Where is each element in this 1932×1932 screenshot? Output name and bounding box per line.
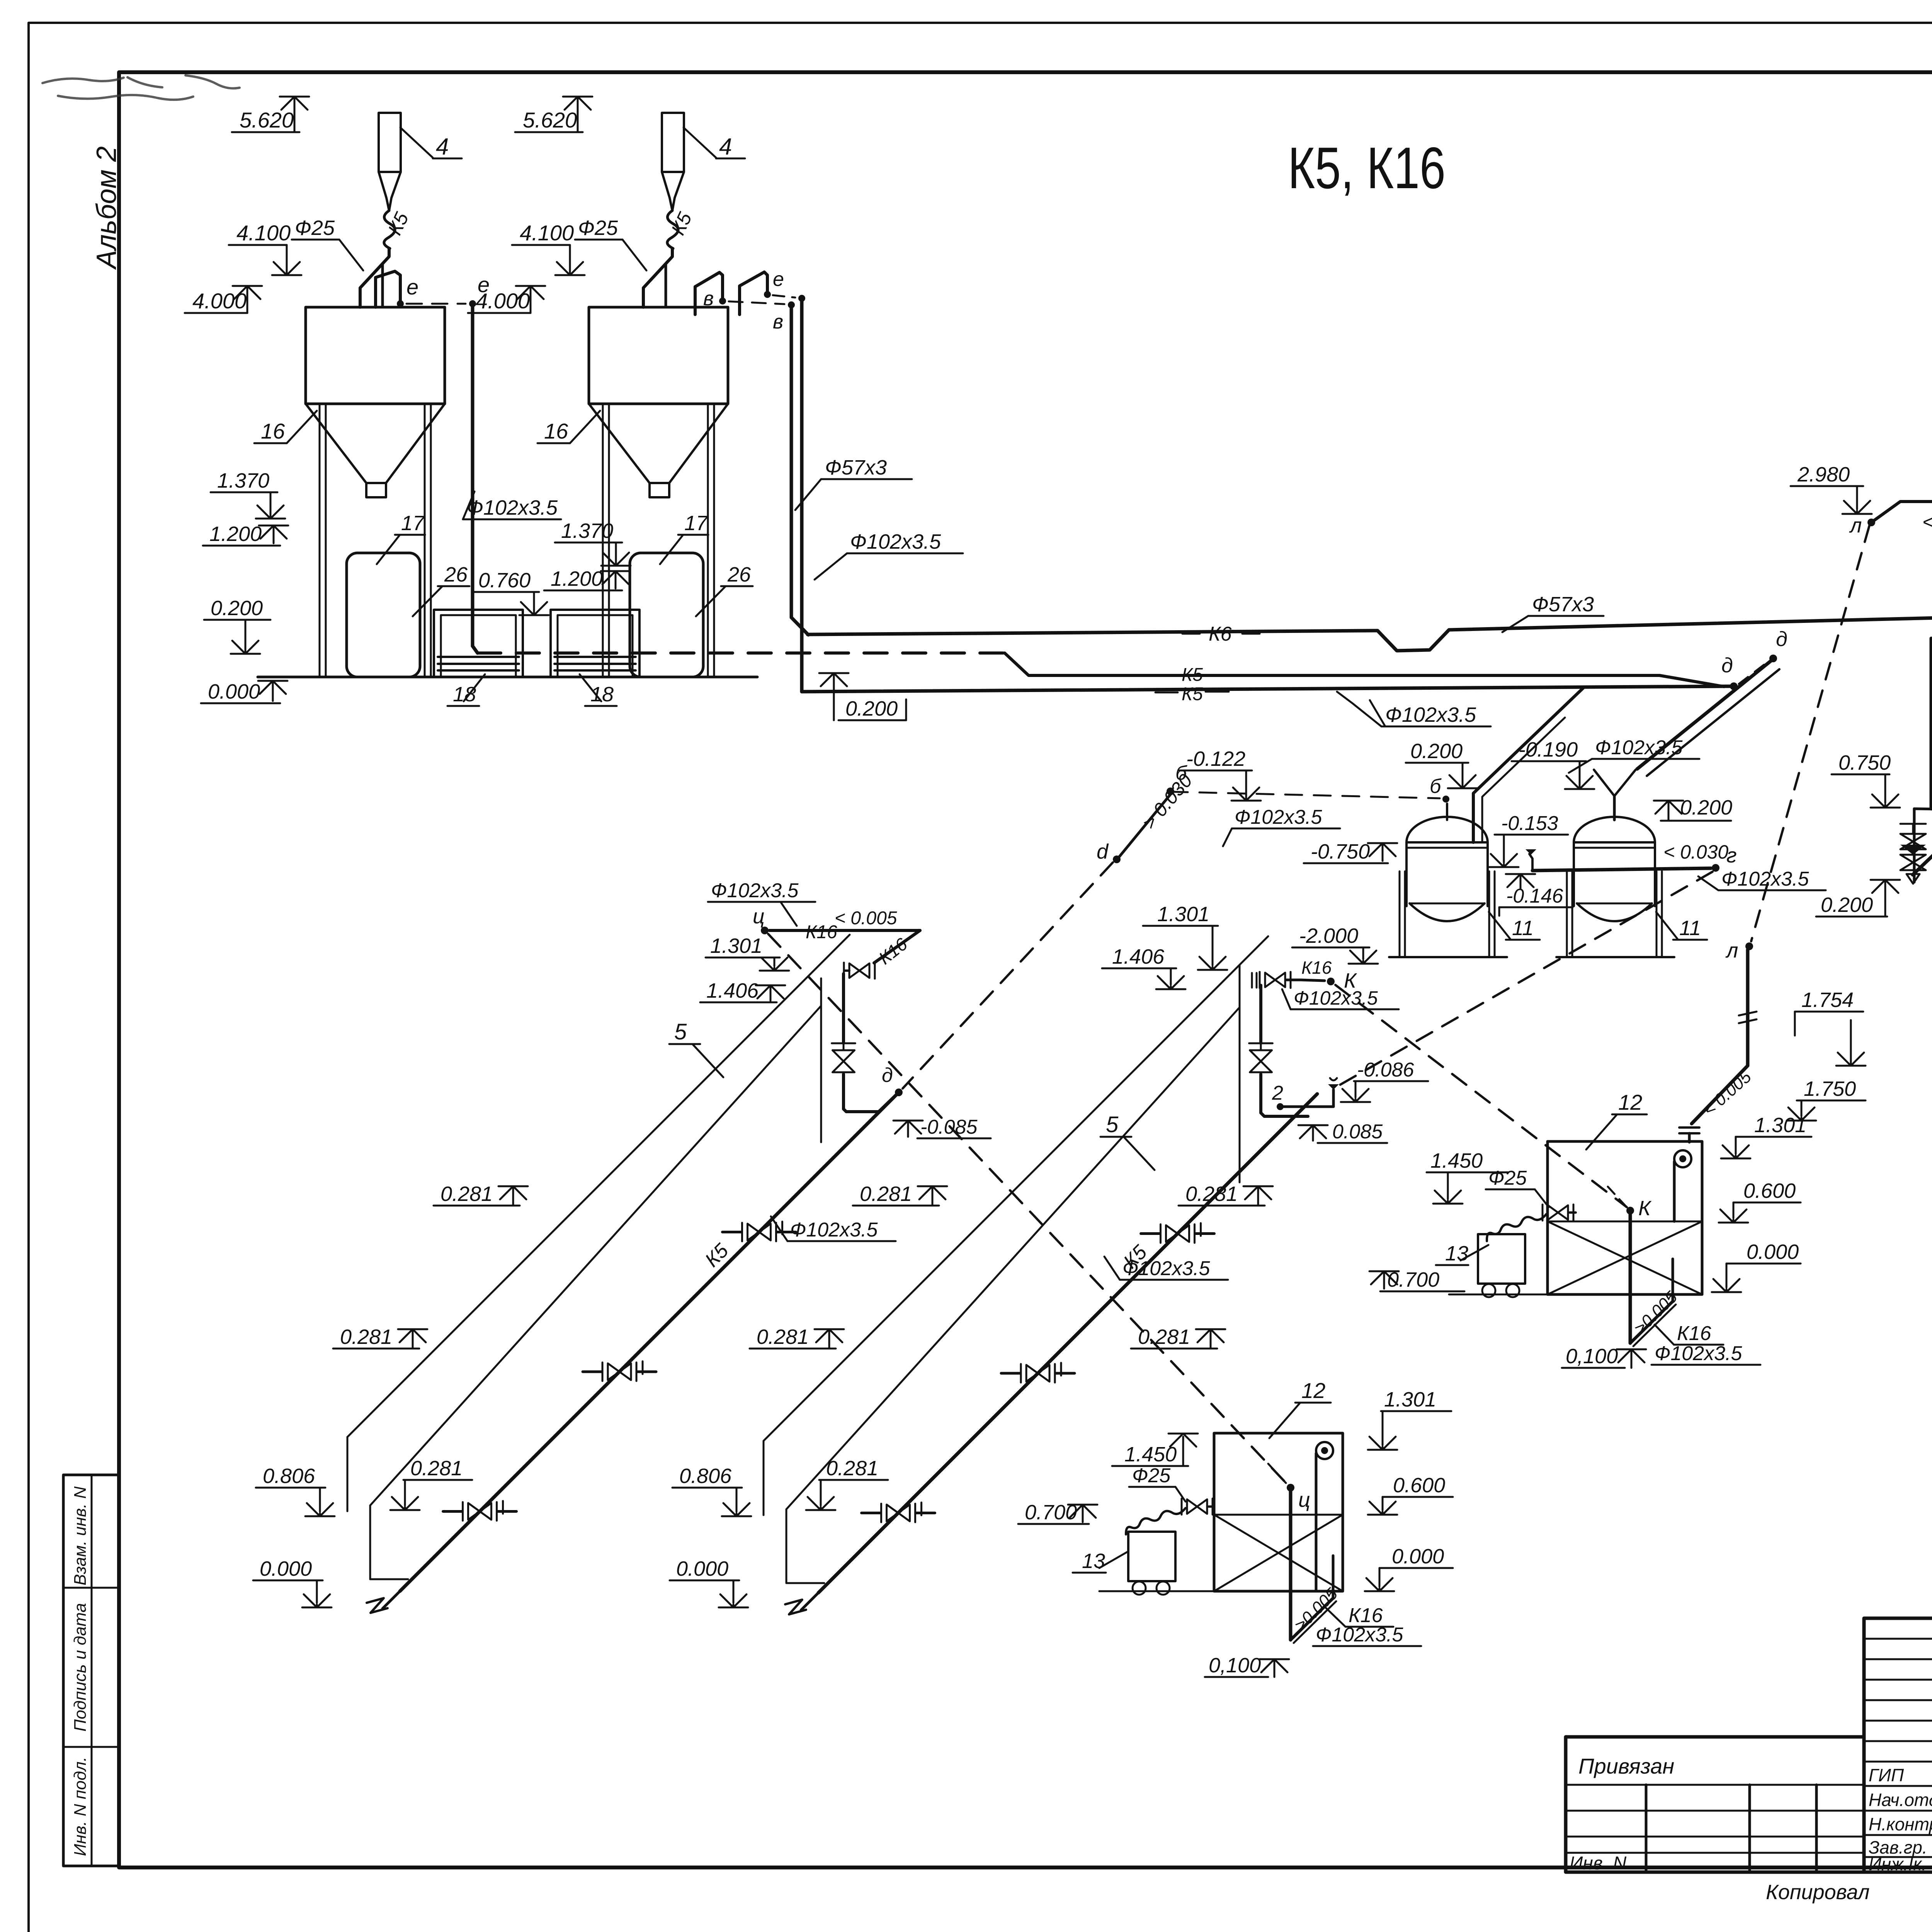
dashed г to node2 (1337, 872, 1713, 1087)
svg-text:0.600: 0.600 (1743, 1179, 1796, 1202)
svg-text:Ф57x3: Ф57x3 (1532, 593, 1594, 616)
svg-text:-0.190: -0.190 (1519, 738, 1578, 761)
svg-text:2.980: 2.980 (1797, 463, 1850, 486)
svg-text:Ф25: Ф25 (295, 216, 335, 240)
svg-text:0.200: 0.200 (1821, 893, 1873, 917)
svg-text:11: 11 (1512, 917, 1534, 940)
svg-text:К5: К5 (1182, 684, 1203, 704)
svg-text:Ф102x3.5: Ф102x3.5 (1655, 1342, 1742, 1365)
valve on trench К5 1 (left) (742, 1221, 782, 1241)
tank 16 legs (319, 404, 321, 677)
vent riser е (right assembly) (740, 272, 767, 315)
svg-text:0.000: 0.000 (260, 1557, 312, 1580)
svg-text:1.450: 1.450 (1124, 1443, 1177, 1466)
tank2 funnel (1594, 770, 1636, 796)
trench 5 lower wall (left) (370, 1006, 821, 1505)
svg-text:0.281: 0.281 (1138, 1325, 1190, 1349)
trench К5 pipe (left) (400, 1092, 899, 1591)
svg-text:0.200: 0.200 (845, 697, 898, 720)
svg-text:1.754: 1.754 (1801, 988, 1854, 1012)
node д dashed (1739, 662, 1768, 684)
svg-text:0.281: 0.281 (340, 1325, 392, 1349)
svg-text:0.281: 0.281 (1185, 1182, 1238, 1206)
tray item 18 (left) (434, 610, 523, 677)
svg-text:-0.750: -0.750 (1311, 840, 1370, 863)
svg-text:13: 13 (1445, 1242, 1468, 1265)
trench 5 upper wall (left) (347, 935, 850, 1437)
svg-text:1.200: 1.200 (551, 567, 603, 590)
svg-text:4: 4 (436, 134, 449, 160)
svg-text:Ф102x3.5: Ф102x3.5 (711, 879, 799, 902)
svg-text:1.200: 1.200 (209, 522, 262, 546)
svg-text:Подпись и дата: Подпись и дата (71, 1603, 90, 1732)
svg-text:5: 5 (674, 1019, 687, 1044)
svg-text:Ф102x3.5: Ф102x3.5 (1235, 806, 1322, 828)
svg-text:К6: К6 (1209, 623, 1232, 645)
svg-text:0,100: 0,100 (1209, 1654, 1261, 1677)
tank1 nozzle б (1446, 804, 1448, 820)
drain К16 incline (bottom) (1291, 1598, 1333, 1640)
svg-text:26: 26 (727, 563, 751, 586)
svg-text:ц: ц (753, 905, 765, 928)
svg-text:д: д (1721, 654, 1733, 677)
svg-text:ц: ц (1298, 1488, 1310, 1512)
svg-text:0.281: 0.281 (440, 1182, 493, 1206)
svg-text:12: 12 (1618, 1090, 1642, 1114)
scan smudge (43, 75, 240, 100)
dashed л riser (1751, 526, 1869, 941)
svg-text:Ф102x3.5: Ф102x3.5 (850, 530, 941, 553)
svg-text:0.760: 0.760 (478, 569, 531, 592)
dim 0.085 (trench2) (1298, 1125, 1328, 1141)
svg-text:5: 5 (1106, 1112, 1119, 1137)
valve on trench К5 1 (right) (1161, 1223, 1201, 1243)
node 2 (trench2) (1277, 1103, 1284, 1110)
valve column (1913, 809, 1916, 882)
pipe К16 branch diagonal (874, 930, 920, 963)
svg-text:Ф102x3.5: Ф102x3.5 (1316, 1624, 1403, 1646)
float symbol г (1529, 854, 1532, 871)
svg-text:4: 4 (719, 134, 732, 160)
node л bottom (1745, 942, 1753, 950)
slope >0.030 link (1119, 794, 1170, 857)
svg-text:< 0.005: < 0.005 (835, 908, 897, 929)
svg-text:Привязан: Привязан (1578, 1754, 1674, 1778)
bin item 17 (347, 553, 420, 677)
svg-text:0.000: 0.000 (676, 1557, 728, 1580)
svg-text:З: З (1930, 781, 1932, 804)
pipe К5 lower horizontal (802, 686, 1731, 692)
svg-text:л: л (1725, 939, 1738, 962)
pipe д to funnel (double) (1637, 660, 1772, 769)
pipe К5 upper horizontal (1005, 653, 1724, 687)
svg-text:Взам. инв. N: Взам. инв. N (71, 1486, 90, 1585)
svg-text:< 0.005: < 0.005 (1922, 511, 1932, 533)
ground line 0.000 (258, 676, 757, 679)
pipe л down (1746, 950, 1750, 1066)
svg-text:К16: К16 (1301, 957, 1332, 978)
svg-text:12: 12 (1301, 1378, 1325, 1403)
svg-text:4.100: 4.100 (236, 221, 291, 245)
dim 1.754 arrow (1836, 1043, 1866, 1066)
svg-text:2: 2 (1272, 1082, 1283, 1104)
svg-text:д: д (882, 1064, 893, 1087)
dim -0.085 (trench1) (893, 1121, 923, 1137)
svg-text:1.750: 1.750 (1804, 1077, 1856, 1100)
svg-text:К5: К5 (1182, 665, 1203, 685)
svg-text:1.370: 1.370 (217, 469, 269, 492)
pipe break squiggle К5 (384, 211, 395, 248)
pipe К16 horizontal (1871, 491, 1932, 522)
svg-text:0.000: 0.000 (1392, 1545, 1444, 1568)
svg-text:11: 11 (1679, 917, 1701, 940)
svg-text:Ф102x3.5: Ф102x3.5 (1385, 703, 1476, 726)
node К (trench2) (1301, 980, 1325, 981)
svg-text:0.200: 0.200 (1680, 796, 1732, 819)
node в dashed link (729, 301, 784, 304)
svg-text:0.200: 0.200 (211, 597, 263, 620)
gate valve (trench2) (1249, 1043, 1273, 1072)
svg-text:18: 18 (590, 683, 614, 706)
svg-text:4.000: 4.000 (192, 289, 247, 313)
svg-text:К16: К16 (806, 922, 837, 942)
svg-text:Ф102x3.5: Ф102x3.5 (1122, 1257, 1210, 1280)
svg-text:0.281: 0.281 (826, 1457, 878, 1480)
dashed ц to ц (long) (768, 934, 1287, 1485)
svg-text:0.750: 0.750 (1838, 751, 1891, 774)
svg-text:Альбом 2: Альбом 2 (91, 146, 122, 270)
trench 5 lower wall (right) (786, 1007, 1240, 1509)
svg-text:1.301: 1.301 (1754, 1114, 1806, 1137)
svg-text:Ф25: Ф25 (1488, 1167, 1527, 1189)
svg-text:ГИП: ГИП (1869, 1765, 1904, 1785)
svg-text:Инж.Iк.: Инж.Iк. (1869, 1854, 1927, 1874)
node К riser (1626, 1207, 1634, 1214)
svg-text:5.620: 5.620 (523, 108, 577, 132)
svg-text:б: б (1430, 775, 1442, 798)
hose zigzag (right) (1487, 1214, 1546, 1241)
cart ground (bottom) (1099, 1590, 1214, 1592)
svg-text:0.000: 0.000 (208, 680, 260, 703)
svg-text:17: 17 (684, 512, 708, 535)
svg-text:-0.153: -0.153 (1501, 812, 1558, 835)
gate valve (trench1) (832, 1043, 855, 1072)
valve Ф25 (right) (1543, 1204, 1573, 1221)
svg-text:1.370: 1.370 (561, 519, 613, 543)
svg-text:Ф57x3: Ф57x3 (825, 456, 887, 479)
feeder item 4 (right) (662, 113, 684, 172)
pipe К6 horizontal (808, 631, 1378, 634)
hose zigzag (bottom) (1126, 1508, 1185, 1534)
node е dashed link (406, 303, 466, 305)
trench2 wall edge vertical (1239, 965, 1241, 1182)
svg-text:17: 17 (401, 512, 425, 535)
valve К16 (trench2) (1260, 972, 1291, 988)
tray item 18 (right) (551, 610, 639, 677)
svg-text:е: е (773, 268, 784, 291)
svg-text:0.085: 0.085 (1332, 1121, 1383, 1143)
svg-text:4.100: 4.100 (520, 221, 574, 245)
svg-text:1.301: 1.301 (1384, 1388, 1436, 1411)
riser Ф102x3.5 down (471, 306, 474, 646)
trench1 wall edge vertical (820, 978, 822, 1142)
spherical tank 11 (right) (1574, 817, 1655, 842)
pipe К16 ц horizontal (769, 929, 920, 932)
svg-text:0.000: 0.000 (1747, 1240, 1799, 1264)
svg-text:Н.контр.: Н.контр. (1869, 1814, 1932, 1834)
pipe Ф25 feeder to tank (643, 248, 672, 307)
valve on trench К5 2 (right) (1021, 1363, 1061, 1383)
cart ground (right) (1449, 1294, 1548, 1296)
svg-text:0.806: 0.806 (679, 1464, 732, 1488)
pipe г horizontal (1532, 868, 1711, 871)
gooseneck vent (right) (1674, 1150, 1691, 1167)
tank 16 body (306, 307, 445, 404)
node л top (1867, 519, 1875, 526)
vent riser е (left assembly) (376, 271, 400, 307)
svg-text:е: е (406, 275, 418, 299)
dashed К to К (long) (1335, 985, 1627, 1207)
pipe е down to К5 (800, 301, 804, 692)
svg-text:0.806: 0.806 (263, 1464, 315, 1488)
svg-text:1.406: 1.406 (706, 979, 759, 1002)
svg-text:л: л (1849, 514, 1862, 537)
bin item 17 (630, 553, 703, 677)
valve on trench К5 3 (left) (463, 1501, 503, 1520)
svg-text:16: 16 (261, 419, 285, 443)
svg-text:5.620: 5.620 (240, 108, 294, 132)
tank 16 body (right) (589, 307, 728, 404)
svg-text:1.301: 1.301 (1157, 903, 1209, 926)
left stamp boxes (63, 1475, 119, 1866)
title block signature table (1864, 1618, 1932, 1872)
svg-text:d: d (1097, 840, 1109, 863)
tank 16 legs (602, 404, 604, 677)
valve К16 (trench1) (844, 963, 875, 979)
pipe break squiggle К5 (667, 211, 678, 248)
spherical tank 11 (left) (1406, 817, 1488, 842)
svg-text:0.281: 0.281 (410, 1457, 463, 1480)
valve Ф25 (bottom) (1182, 1498, 1213, 1515)
dashed underground К5 (478, 651, 1005, 655)
node д (trench1) (895, 1088, 903, 1096)
svg-text:26: 26 (444, 563, 468, 586)
pipe К16 branch top (trench2) (1259, 985, 1262, 1043)
svg-text:Ф102x3.5: Ф102x3.5 (1721, 868, 1809, 890)
svg-text:16: 16 (544, 419, 568, 443)
node е dashed link 2 (773, 295, 795, 298)
svg-text:Ф102x3.5: Ф102x3.5 (467, 496, 558, 519)
svg-text:Ф102x3.5: Ф102x3.5 (1595, 736, 1683, 759)
svg-text:0.600: 0.600 (1393, 1474, 1445, 1497)
branch riser (trench1) (842, 974, 845, 1043)
svg-text:0.281: 0.281 (860, 1182, 912, 1206)
node ц riser (1287, 1484, 1294, 1492)
svg-text:0,100: 0,100 (1566, 1345, 1618, 1368)
tank1 side pipe (1473, 687, 1584, 842)
svg-text:Нач.отд.: Нач.отд. (1869, 1790, 1932, 1810)
node З-З (1914, 809, 1932, 821)
gooseneck vent (bottom) (1316, 1442, 1333, 1459)
svg-text:Ф102x3.5: Ф102x3.5 (1294, 987, 1378, 1009)
tank 12 body (right) (1548, 1141, 1702, 1294)
pipe К5 diagonal (pump discharge) (1913, 767, 1932, 875)
svg-text:К5, К16: К5, К16 (1288, 135, 1446, 201)
cart 13 (right) (1478, 1234, 1525, 1284)
svg-text:Инв. N: Инв. N (1570, 1853, 1626, 1874)
dim 0.200 (tank2 right) (1654, 801, 1683, 818)
trench 5 upper wall (right) (764, 936, 1268, 1441)
svg-text:Ф25: Ф25 (1132, 1464, 1171, 1487)
svg-text:13: 13 (1082, 1549, 1105, 1573)
svg-text:-0.122: -0.122 (1186, 747, 1245, 770)
svg-text:0.281: 0.281 (757, 1325, 809, 1349)
svg-text:в: в (773, 311, 783, 333)
valve on trench К5 3 (right) (881, 1502, 922, 1522)
title block left table (1566, 1737, 1864, 1872)
svg-text:1.406: 1.406 (1112, 945, 1165, 968)
svg-text:К16: К16 (1677, 1322, 1711, 1345)
dashed d to д (903, 862, 1113, 1088)
dashed б-б (1171, 792, 1440, 798)
svg-text:< 0.030: < 0.030 (1663, 841, 1728, 863)
pipe л elbow to tank12 (1692, 1066, 1748, 1124)
svg-text:Копировал: Копировал (1766, 1881, 1870, 1904)
svg-text:Ф25: Ф25 (578, 216, 618, 240)
vent riser в (right assembly) (695, 272, 723, 315)
svg-text:4.000: 4.000 (476, 289, 530, 313)
svg-text:1.301: 1.301 (710, 934, 762, 957)
svg-text:Инв. N подл.: Инв. N подл. (71, 1757, 90, 1856)
cart 13 (bottom) (1128, 1532, 1175, 1581)
valve on trench К5 2 (left) (602, 1361, 643, 1381)
pipe в down to К6 (790, 308, 793, 617)
node ц (761, 927, 769, 934)
node д (1730, 682, 1738, 690)
drain К16 incline (right) (1630, 1301, 1673, 1343)
svg-text:д: д (1776, 628, 1787, 651)
pipe Ф25 feeder to tank (360, 248, 389, 307)
svg-text:0.200: 0.200 (1410, 740, 1463, 763)
svg-text:-2.000: -2.000 (1299, 924, 1358, 947)
trench К5 pipe (right) (818, 1094, 1317, 1593)
svg-text:Ф102x3.5: Ф102x3.5 (790, 1219, 878, 1241)
svg-text:К: К (1638, 1197, 1652, 1220)
tank 12 body (bottom) (1214, 1433, 1343, 1591)
svg-text:1.450: 1.450 (1430, 1149, 1483, 1172)
feeder item 4 (left) (379, 113, 401, 172)
svg-text:18: 18 (453, 683, 476, 706)
node д2 (1769, 655, 1777, 662)
svg-text:-0.146: -0.146 (1506, 885, 1563, 907)
